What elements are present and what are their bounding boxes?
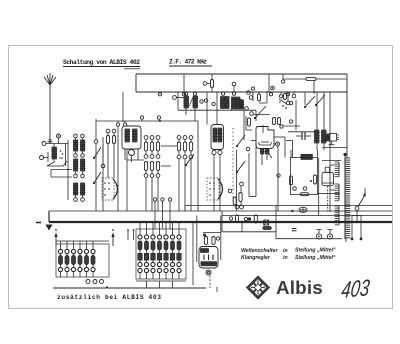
terminal grid bus a — [116, 121, 119, 126]
matrix A column 1 — [58, 241, 62, 277]
resistor ladder1 upper 2 — [150, 142, 153, 151]
wire drop x184 — [183, 74, 185, 92]
node c d markers — [127, 229, 134, 240]
wire switch bus b — [102, 144, 104, 211]
wire T3 T4 leads — [178, 92, 256, 140]
capacitor C5 — [107, 136, 110, 144]
terminal grid bus b — [123, 121, 126, 126]
terminal det 2 — [249, 96, 253, 100]
tube V3 cathode cup — [259, 142, 272, 145]
ground chassis arrow — [46, 225, 53, 231]
svg-text:Schaltung von ALBIS 402: Schaltung von ALBIS 402 — [63, 59, 140, 66]
resistor ladder1 upper 1 — [144, 142, 147, 151]
T2 tuning arrow — [190, 98, 193, 106]
wire C16 lead — [327, 186, 329, 211]
terminal T2 left — [173, 96, 184, 100]
resistor ladder2 upper 3 — [189, 142, 192, 151]
switch matrix B frame — [136, 229, 186, 279]
IF transformer T2 secondary — [192, 96, 198, 108]
node on feed wire — [281, 80, 284, 83]
resistor R14 — [301, 193, 309, 196]
switch S1b contact — [93, 164, 105, 184]
capacitor C1 — [40, 152, 49, 162]
capacitor C15 — [296, 132, 311, 140]
wire V1 column b — [122, 92, 124, 122]
wire T2 leads down — [186, 108, 195, 121]
ground bus heavy — [36, 211, 392, 223]
terminal above T4 — [232, 92, 235, 95]
tube V1 anode grid structure — [124, 129, 137, 142]
capacitor C18 — [203, 234, 208, 245]
variable capacitor gang section 2 — [207, 178, 223, 200]
wire ladder1 column 3 — [157, 140, 159, 212]
resistor R13 — [314, 175, 317, 184]
tube V2 pin wires — [214, 155, 220, 211]
capacitor C19 — [212, 237, 220, 245]
resistor ladder1 upper 3 — [156, 142, 159, 151]
junction y210 — [291, 210, 293, 212]
terminal det 3 — [250, 112, 270, 116]
jack J2 — [327, 230, 332, 240]
wire ladder2 column 3 — [190, 140, 192, 212]
rectifier V4 base — [200, 262, 217, 266]
resistor ladder2 upper 2 — [183, 142, 186, 151]
terminal ladder1 mid 2 — [150, 155, 154, 159]
wire bus second — [185, 206, 392, 212]
antenna coupling coil L1 — [51, 144, 57, 160]
wire antenna coil bottom — [47, 144, 67, 167]
electrolytic capacitor C16 — [322, 167, 334, 186]
wire x330 drop — [329, 92, 331, 212]
fuse F1 — [263, 227, 272, 230]
paper frame — [9, 46, 393, 309]
wire V3 anode link — [274, 137, 285, 158]
rectifier V4 filament bars — [204, 255, 213, 261]
matrix B frame bottom extend — [136, 281, 186, 288]
wire V3 side link — [277, 146, 280, 211]
terminal ladder1 mid 1 — [144, 155, 148, 159]
svg-text:Stellung „Mittel“: Stellung „Mittel“ — [295, 255, 336, 261]
terminal rail group — [153, 198, 171, 229]
svg-text:Albis: Albis — [276, 277, 323, 298]
wire feed arrow b — [111, 229, 114, 246]
wire det lower link — [286, 94, 318, 132]
capacitor C6 — [113, 136, 116, 144]
wire coil bank stubs — [76, 138, 83, 198]
terminal row mid — [74, 154, 85, 158]
svg-text:Klangregler: Klangregler — [241, 255, 271, 261]
label: zusaetzlich bei ALBIS 403 — [57, 294, 161, 301]
terminal box a — [293, 187, 297, 191]
variable capacitor gang section 1 — [102, 178, 118, 200]
antenna — [44, 73, 56, 142]
svg-text:zusätzlich bei ALBIS 403: zusätzlich bei ALBIS 403 — [57, 294, 161, 301]
wire bus third — [222, 211, 392, 216]
wire det verticals — [253, 81, 314, 130]
wire x292 link — [286, 141, 293, 158]
terminal ground jack — [57, 134, 61, 144]
label: Schaltung von ALBIS 402 — [63, 59, 140, 69]
terminal ladder1 top 3 — [156, 136, 160, 140]
resistor ladder1 lower 2 — [150, 162, 153, 171]
resistor R12 — [290, 176, 293, 185]
svg-text:403: 403 — [340, 274, 371, 303]
node screen rail 3 — [269, 93, 272, 96]
wire pad leads — [108, 133, 114, 178]
mains switch S7 — [355, 193, 365, 221]
terminal ladder1 mid 3 — [156, 155, 160, 159]
power transformer secondary winding 1 — [335, 162, 339, 177]
wire T6 feeds — [317, 92, 324, 150]
matrix A column 4 — [78, 241, 82, 277]
tube V1 envelope — [122, 126, 141, 149]
switch S6 contact — [304, 96, 315, 108]
tube V3 grid terminal — [274, 142, 280, 146]
wire HT rail left drop — [135, 74, 137, 92]
junction box — [310, 180, 312, 182]
node screen rail 4 — [286, 93, 289, 96]
wire V1 column c — [126, 149, 128, 211]
resistor R5 dropper — [203, 74, 213, 92]
tube V2 cathode terminals — [212, 150, 222, 154]
label: 403 model number — [338, 274, 374, 303]
svg-text:Wellenschalter: Wellenschalter — [241, 248, 279, 254]
resistor ladder1 lower 3 — [156, 162, 159, 171]
wire det box — [259, 91, 267, 103]
wire grid bus — [96, 121, 198, 211]
IF transformer T4 secondary — [235, 97, 244, 109]
wire V2 top feeds — [207, 92, 217, 125]
switch S1a contact — [93, 140, 101, 159]
svg-text:Stellung „Mittel“: Stellung „Mittel“ — [295, 248, 336, 254]
dial lamp LP2 — [299, 207, 307, 212]
matrix A lower terminals — [86, 280, 104, 284]
capacitor C21 cluster — [229, 215, 257, 223]
wire HT rail right drop — [346, 74, 348, 158]
pilot lamp LP1 — [264, 220, 269, 225]
rectifier V4 cathode jack — [206, 270, 211, 275]
node screen rail 2 — [182, 93, 185, 96]
matrix B column 2 — [144, 223, 148, 279]
terminal above T3 — [221, 92, 224, 95]
terminal ladder1 bottom 1 — [144, 174, 148, 178]
terminal det 1 — [247, 86, 275, 94]
tube V2 envelope — [211, 125, 224, 150]
output network box — [291, 158, 318, 195]
tube V3 envelope — [256, 127, 274, 149]
wire osc verticals — [237, 141, 257, 212]
terminal grid bus c — [140, 116, 143, 121]
IF transformer T3 primary — [220, 97, 225, 109]
wire ladder2 column 2 — [184, 140, 186, 212]
wire drop x269 — [268, 74, 270, 92]
wire switch bus a — [95, 144, 97, 211]
terminal ladder2 mid 1 — [177, 155, 181, 159]
wire mains leads — [346, 188, 365, 242]
label: Z.F. 472 kHz — [169, 59, 212, 67]
wire antenna down-lead — [49, 85, 51, 144]
wire ladder1 column 1 — [145, 140, 147, 212]
rectifier tube V4 envelope — [199, 247, 218, 269]
node x234 — [232, 82, 236, 92]
tube V1 cathode terminal — [129, 150, 135, 156]
terminal det 8 — [283, 120, 300, 126]
node transformer top — [322, 148, 347, 159]
junction grid bus — [159, 120, 161, 122]
terminal row below L4 — [74, 198, 85, 202]
wire transformer left taps — [322, 161, 341, 191]
tube V3 base blocks — [260, 149, 270, 154]
switch matrix A frame — [56, 241, 109, 277]
output transformer T6 secondary — [321, 130, 327, 143]
power transformer secondary winding 3 — [335, 206, 339, 225]
switch S2 contact — [185, 154, 194, 166]
demodulator cluster — [279, 94, 293, 109]
terminal above T2 — [184, 92, 196, 95]
wire rail y232 segment — [222, 216, 276, 232]
capacitor C13 — [273, 118, 284, 129]
IF transformer T4 primary — [231, 97, 236, 109]
terminal row below L3 — [74, 174, 85, 178]
matrix B column 4 — [157, 223, 161, 279]
tube V3 pin wires — [251, 141, 272, 166]
matrix A column 2 — [65, 241, 69, 277]
wire HT rail top — [136, 73, 347, 75]
terminal pad a — [106, 129, 110, 133]
terminal pad b — [112, 129, 116, 133]
wire coil bank left — [67, 140, 68, 200]
terminal grid bus d — [157, 116, 160, 121]
wire R14 leads — [318, 193, 341, 195]
matrix B column 7 — [177, 223, 181, 279]
trimmer capacitor C9 — [240, 100, 249, 111]
terminal antenna jack — [42, 142, 67, 146]
tuning coil L4a — [73, 183, 78, 195]
rectifier V4 anode plate — [200, 249, 209, 253]
tuning coil L2b — [80, 140, 85, 151]
wire added-section bottom bus — [53, 286, 217, 292]
power transformer primary winding — [345, 158, 350, 239]
wire feed arrow a — [54, 229, 57, 246]
jack J1 — [316, 230, 321, 240]
terminal box b — [303, 187, 307, 191]
wire bus thin — [49, 210, 392, 212]
matrix A column 5 — [84, 241, 88, 277]
wire rectifier leads — [193, 216, 221, 289]
svg-text:in: in — [283, 255, 288, 261]
trimmer assembly — [325, 134, 339, 145]
wire ladder1 links — [127, 146, 177, 166]
terminal ladder1 top 2 — [150, 136, 154, 140]
gang section 0 bracket — [51, 170, 72, 178]
terminal ladder1 bottom 2 — [150, 174, 154, 178]
matrix A column 6 — [91, 241, 95, 277]
resistor R8 — [239, 182, 244, 205]
fuse dashes — [292, 229, 297, 231]
switch S3 contact — [236, 135, 250, 151]
resistor ladder2 upper 1 — [177, 142, 180, 151]
terminal ladder2 top 1 — [177, 136, 181, 140]
matrix B column 5 — [164, 223, 168, 279]
output transformer T6 primary — [314, 130, 320, 143]
terminal ladder2 mid 2 — [183, 155, 187, 159]
label: Wellenschalter note — [241, 248, 336, 262]
switch gang dashed shaft — [232, 128, 234, 204]
label: Albis wordmark — [276, 277, 323, 298]
wire V1 column a — [117, 127, 119, 212]
power transformer secondary winding 2 — [335, 184, 339, 201]
tuning coil L3a — [73, 159, 78, 171]
resistor R17 on feed wire — [283, 74, 347, 81]
terminal ladder2 mid 3 — [189, 155, 193, 159]
terminal row above L2 — [74, 134, 85, 138]
wire ladder2 column 1 — [178, 140, 180, 212]
resistor R9 — [258, 94, 261, 101]
switch S6b contact — [315, 95, 325, 106]
capacitor C11 — [228, 189, 243, 209]
tube V1 pin wires — [125, 149, 138, 162]
tuning coil L3b — [80, 159, 85, 171]
switch S5 contact — [254, 106, 266, 119]
matrix B column 6 — [170, 223, 174, 279]
capacitor C12 — [247, 118, 250, 126]
wire ladder1 column 2 — [151, 140, 153, 212]
terminal mixer grid — [200, 99, 215, 106]
tuning coil L4b — [80, 183, 85, 195]
terminal ladder1 top 1 — [144, 136, 148, 140]
IF transformer T2 primary — [183, 96, 189, 108]
Albis logo diamond — [247, 276, 270, 299]
wire switch top stubs — [96, 119, 103, 163]
terminal ladder2 top 2 — [183, 136, 187, 140]
loudspeaker field coil — [300, 154, 313, 159]
wire jack bus — [276, 206, 342, 239]
matrix A column 3 — [71, 241, 75, 277]
wire AF coupling — [246, 116, 263, 133]
wire box feeds — [291, 150, 319, 216]
trimmer marks — [59, 150, 63, 158]
node screen rail 1 — [158, 93, 161, 96]
terminal ladder2 top 3 — [189, 136, 193, 140]
switch S4 contact — [236, 161, 245, 173]
tuning coil L2a — [73, 140, 78, 151]
terminal ladder1 bottom 3 — [156, 174, 160, 178]
mains terminal dots — [351, 216, 363, 241]
svg-text:Z.F. 472 kHz: Z.F. 472 kHz — [169, 59, 207, 66]
svg-text:in: in — [283, 248, 288, 254]
wire screen rail — [136, 91, 347, 93]
IF transformer T3 secondary — [224, 97, 229, 109]
resistor ladder1 lower 1 — [144, 162, 147, 171]
tube V2 electrode structure — [212, 128, 222, 142]
matrix B column 1 — [138, 223, 142, 279]
matrix B column 3 — [151, 223, 155, 279]
